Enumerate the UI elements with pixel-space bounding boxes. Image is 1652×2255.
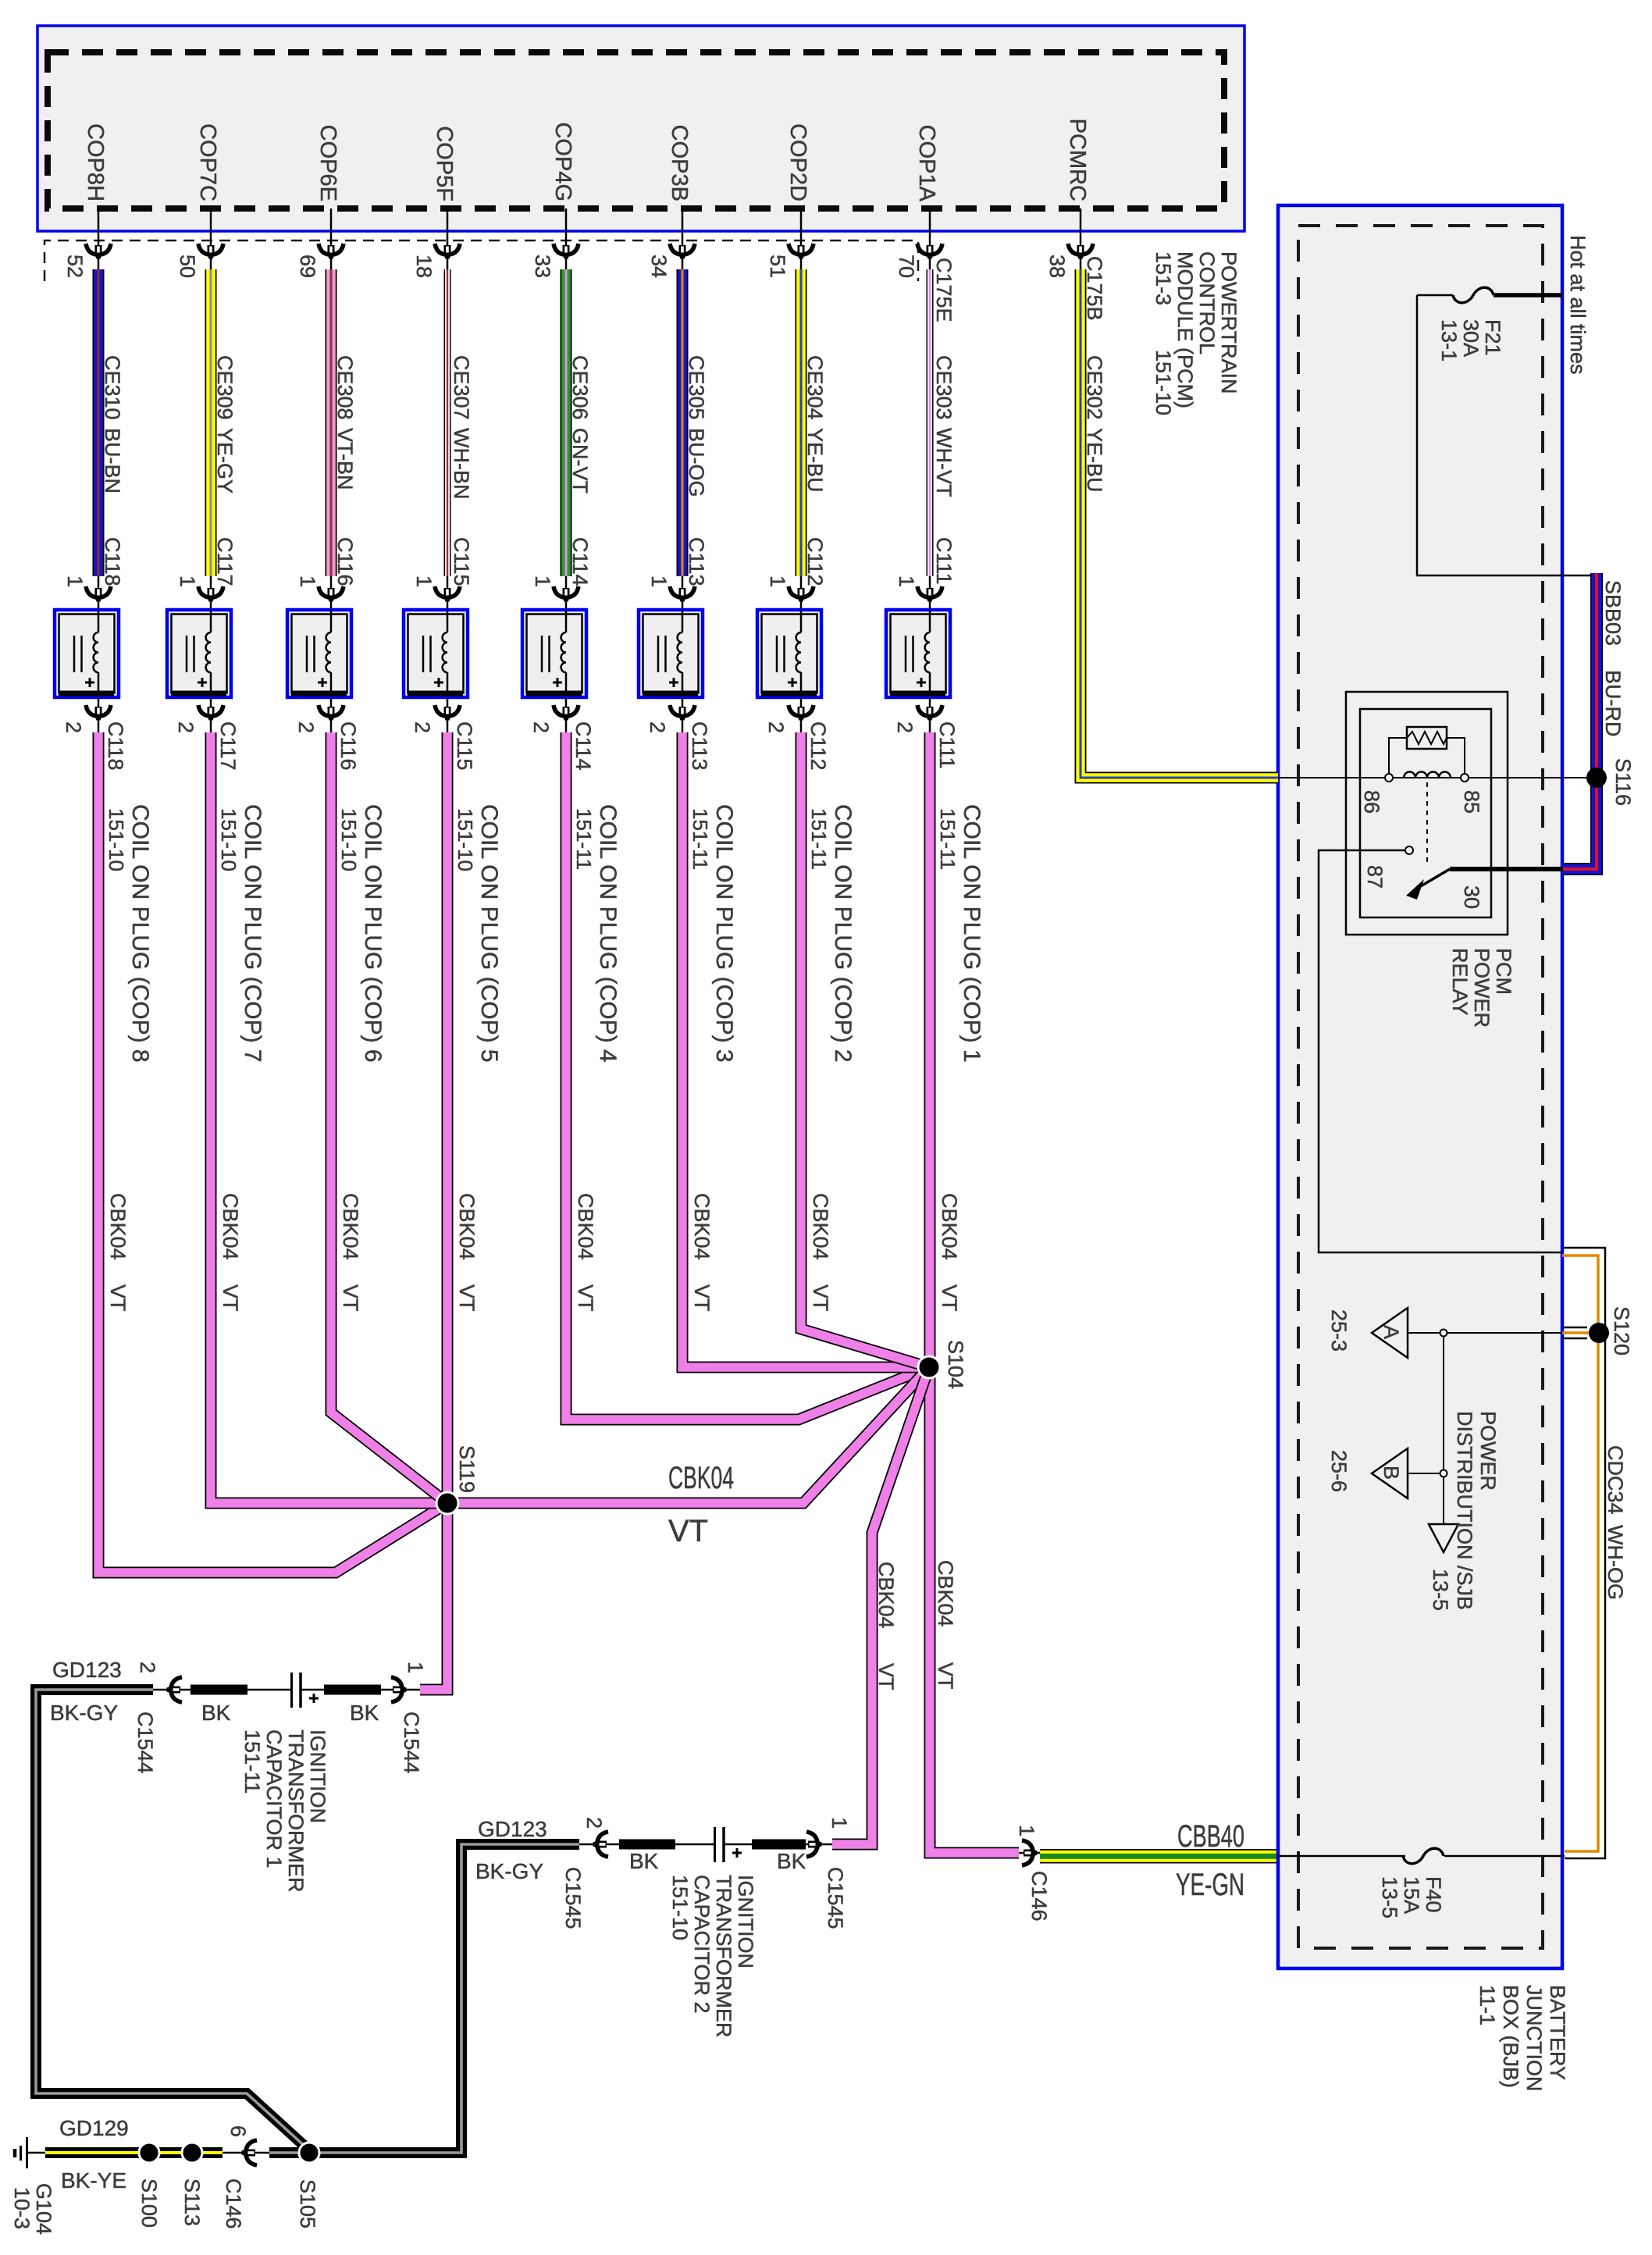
coil on plug (COP) 1 ignition coil <box>886 610 950 697</box>
svg-text:70: 70 <box>895 255 918 278</box>
svg-text:C118: C118 <box>101 537 124 586</box>
battery junction box (BJB) <box>1278 205 1562 1968</box>
svg-text:CBK04: CBK04 <box>809 1193 832 1260</box>
svg-text:POWER: POWER <box>1470 948 1494 1028</box>
label CBB40 YE-GN <box>1176 1819 1244 1902</box>
svg-text:CE302: CE302 <box>1083 355 1106 420</box>
svg-text:CONTROL: CONTROL <box>1195 251 1219 354</box>
label CBK04 VT on COP3 wire <box>690 1193 714 1312</box>
svg-text:COIL ON PLUG (COP) 6: COIL ON PLUG (COP) 6 <box>360 804 386 1063</box>
triangle B (25-6) <box>1327 1448 1408 1498</box>
PCM module label <box>1152 251 1241 415</box>
svg-text:S104: S104 <box>944 1340 967 1389</box>
svg-text:CBK04: CBK04 <box>934 1560 957 1627</box>
wire CBK04 VT from COP5 through S119 to capacitor C1544 <box>420 732 447 1690</box>
svg-text:WH-VT: WH-VT <box>932 428 956 497</box>
wire CDC34 WH-OG from relay pin 87 via S120 to F40 <box>1562 1248 1605 1858</box>
svg-text:51: 51 <box>766 255 789 278</box>
svg-text:1: 1 <box>176 575 199 587</box>
coil pin 2 connector C111 <box>893 697 959 769</box>
svg-text:SBB03: SBB03 <box>1601 580 1625 646</box>
svg-text:151-10: 151-10 <box>1152 350 1175 415</box>
svg-text:TRANSFORMER: TRANSFORMER <box>712 1875 735 2038</box>
svg-text:2: 2 <box>764 721 788 733</box>
label CBK04 VT on COP1 wire <box>938 1193 961 1312</box>
svg-text:1: 1 <box>296 575 319 587</box>
svg-text:COIL ON PLUG (COP) 3: COIL ON PLUG (COP) 3 <box>711 804 737 1063</box>
label GD123 BK-GY (capacitor 1 ground wire) <box>50 1658 122 1725</box>
PCM pin COP3B (pin 34) <box>647 125 695 278</box>
svg-text:COP1A: COP1A <box>914 125 939 202</box>
svg-text:C112: C112 <box>806 721 830 771</box>
svg-text:COIL ON PLUG (COP) 4: COIL ON PLUG (COP) 4 <box>595 804 621 1063</box>
svg-text:33: 33 <box>531 255 554 278</box>
coil on plug (COP) 7 ignition coil <box>167 610 231 697</box>
coil connector C115 pin 1 <box>412 575 460 610</box>
svg-text:1: 1 <box>531 575 554 587</box>
wire GD123 BK-GY from capacitor C1544 to splice S105 <box>36 1690 308 2149</box>
svg-text:C113: C113 <box>688 721 711 771</box>
svg-text:POWERTRAIN: POWERTRAIN <box>1217 251 1241 394</box>
svg-text:C117: C117 <box>213 537 237 586</box>
PCM pin COP7C (pin 50) <box>176 123 223 278</box>
svg-text:86: 86 <box>1360 790 1383 814</box>
svg-text:CBK04: CBK04 <box>574 1193 597 1260</box>
svg-text:C175E: C175E <box>932 258 956 322</box>
svg-text:CBK04: CBK04 <box>455 1193 479 1260</box>
svg-text:S113: S113 <box>180 2178 204 2226</box>
svg-text:25-3: 25-3 <box>1327 1309 1351 1352</box>
svg-text:BK: BK <box>350 1701 379 1725</box>
PCM power relay box <box>1346 692 1508 935</box>
wire CE309 YE-GY <box>205 269 217 576</box>
wire labels CE303 WH-VT C111 <box>932 258 956 585</box>
svg-text:YE-GN: YE-GN <box>1176 1868 1244 1902</box>
svg-text:1: 1 <box>647 575 671 587</box>
svg-text:BATTERY: BATTERY <box>1546 1985 1569 2080</box>
svg-text:COIL ON PLUG (COP) 1: COIL ON PLUG (COP) 1 <box>959 804 984 1063</box>
svg-text:PCMRC: PCMRC <box>1065 119 1090 201</box>
svg-text:151-10: 151-10 <box>668 1875 692 1940</box>
label COIL ON PLUG (COP) 3 <box>689 804 737 1063</box>
label COIL ON PLUG (COP) 5 <box>454 804 502 1063</box>
svg-text:1: 1 <box>63 575 87 587</box>
svg-text:2: 2 <box>646 721 669 733</box>
svg-text:VT: VT <box>690 1284 714 1312</box>
fuse F21 30A <box>1417 287 1562 362</box>
svg-text:CAPACITOR 1: CAPACITOR 1 <box>262 1730 286 1868</box>
svg-text:CE309: CE309 <box>213 355 237 420</box>
wire GD123 BK-GY from capacitor C1545 to splice S105 <box>269 1844 579 2153</box>
label COIL ON PLUG (COP) 7 <box>217 804 265 1063</box>
wire GD129 BK-YE from ground G104 <box>45 2147 223 2158</box>
svg-text:C1545: C1545 <box>824 1867 847 1929</box>
svg-text:C1545: C1545 <box>561 1867 585 1929</box>
coil connector C117 pin 1 <box>176 575 223 610</box>
capacitor C1545 connector pin 1 <box>806 1817 851 1929</box>
wire CBK04 VT from COP3 to splice S104 <box>682 732 929 1367</box>
ground G104 <box>10 2137 55 2235</box>
svg-text:WH-BN: WH-BN <box>450 428 473 499</box>
capacitor C1544 connector pin 1 <box>391 1662 427 1774</box>
svg-text:151-11: 151-11 <box>936 808 960 870</box>
svg-text:COIL ON PLUG (COP) 2: COIL ON PLUG (COP) 2 <box>830 804 856 1063</box>
capacitor C1545 connector pin 2 <box>561 1817 619 1929</box>
relay resistor <box>1389 727 1465 774</box>
PCM pin COP8H (pin 52) <box>63 123 111 278</box>
svg-text:C111: C111 <box>935 721 959 769</box>
coil pin 2 connector C112 <box>764 697 830 771</box>
splice S116 <box>1586 758 1635 806</box>
svg-text:151-11: 151-11 <box>240 1730 264 1794</box>
svg-text:1: 1 <box>404 1662 427 1673</box>
relay coil line (pin 86 to pin 85, to S116) <box>1278 777 1591 778</box>
label BATTERY JUNCTION BOX (BJB) 11-1 <box>1476 1985 1569 2092</box>
svg-text:CE308: CE308 <box>333 355 357 420</box>
svg-text:BK-GY: BK-GY <box>50 1701 118 1725</box>
splice S105 <box>296 2143 319 2228</box>
label COIL ON PLUG (COP) 4 <box>572 804 621 1063</box>
svg-text:69: 69 <box>296 255 319 278</box>
svg-text:DISTRIBUTION /SJB: DISTRIBUTION /SJB <box>1453 1411 1476 1610</box>
wire CE303 WH-VT <box>927 269 934 576</box>
label COIL ON PLUG (COP) 1 <box>936 804 984 1063</box>
svg-text:COP7C: COP7C <box>195 123 220 201</box>
svg-text:WH-OG: WH-OG <box>1604 1525 1627 1600</box>
svg-text:VT: VT <box>106 1284 130 1312</box>
coil pin 2 connector C115 <box>411 697 476 771</box>
svg-text:S116: S116 <box>1611 758 1635 806</box>
coil pin 2 connector C116 <box>294 697 360 771</box>
coil connector C112 pin 1 <box>766 575 814 610</box>
svg-text:CE305: CE305 <box>685 355 708 420</box>
ignition transformer capacitor 1 <box>190 1673 420 1708</box>
svg-text:C1544: C1544 <box>400 1712 423 1774</box>
wire F21 to SBB03 (inside BJB) <box>1417 295 1595 575</box>
label CBK04 VT on COP8 wire <box>106 1193 130 1312</box>
label CBK04 VT on COP7 wire <box>219 1193 242 1312</box>
connector C146 pin 6 (ground side) <box>222 2125 269 2229</box>
relay actuator dashed line <box>1426 782 1428 867</box>
capacitor C1544 connector pin 2 <box>134 1662 190 1774</box>
wire labels CE304 YE-BU C112 <box>803 355 827 586</box>
svg-text:87: 87 <box>1363 865 1387 889</box>
svg-text:C115: C115 <box>453 721 476 771</box>
svg-text:YE-GY: YE-GY <box>213 428 237 493</box>
svg-text:BK: BK <box>201 1701 231 1725</box>
triangle A (25-3) <box>1327 1308 1408 1358</box>
coil connector C118 pin 1 <box>63 575 111 610</box>
coil on plug (COP) 8 ignition coil <box>55 610 119 697</box>
svg-text:CBK04: CBK04 <box>219 1193 242 1260</box>
capacitor 2 labels BK / IGNITION TRANSFORMER CAPACITOR 2 <box>629 1849 806 1873</box>
svg-text:6: 6 <box>226 2125 250 2137</box>
svg-text:2: 2 <box>582 1817 606 1829</box>
splice S119 <box>436 1445 479 1514</box>
svg-text:CE303: CE303 <box>932 355 956 420</box>
svg-text:COP4G: COP4G <box>550 122 575 201</box>
svg-text:2: 2 <box>294 721 318 733</box>
wire CE302 YE-BU from PCMRC to relay coil <box>1045 119 1278 778</box>
svg-text:2: 2 <box>893 721 917 733</box>
wire CBB40 YE-GN to battery junction box <box>1040 1849 1278 1864</box>
coil pin 2 connector C113 <box>646 697 711 771</box>
wire labels CE305 BU-OG C113 <box>685 355 708 586</box>
coil on plug (COP) 5 ignition coil <box>404 610 468 697</box>
svg-text:C1544: C1544 <box>134 1712 157 1774</box>
coil pin 2 connector C118 <box>62 697 127 771</box>
wire CE304 YE-BU <box>796 269 807 576</box>
svg-text:COIL ON PLUG (COP) 7: COIL ON PLUG (COP) 7 <box>240 804 265 1063</box>
svg-text:C112: C112 <box>803 537 827 586</box>
label CBK04 VT on COP2 wire <box>809 1193 832 1312</box>
ignition transformer capacitor 2 <box>619 1827 832 1862</box>
svg-text:50: 50 <box>176 255 199 278</box>
svg-text:TRANSFORMER: TRANSFORMER <box>284 1730 308 1893</box>
svg-text:CBK04: CBK04 <box>874 1562 898 1629</box>
svg-text:1: 1 <box>766 575 789 587</box>
svg-text:151-10: 151-10 <box>217 808 240 871</box>
svg-text:C116: C116 <box>333 537 357 586</box>
svg-text:85: 85 <box>1460 790 1483 814</box>
svg-text:VT: VT <box>934 1662 957 1690</box>
svg-text:34: 34 <box>647 255 671 278</box>
svg-text:BK: BK <box>777 1849 806 1873</box>
svg-text:C118: C118 <box>104 721 127 771</box>
label COIL ON PLUG (COP) 2 <box>807 804 856 1063</box>
svg-text:CE310: CE310 <box>101 355 124 420</box>
svg-text:13-1: 13-1 <box>1437 319 1461 362</box>
svg-text:CE307: CE307 <box>450 355 473 420</box>
svg-text:CBK04: CBK04 <box>339 1193 362 1260</box>
label COIL ON PLUG (COP) 8 <box>105 804 153 1063</box>
svg-text:13-5: 13-5 <box>1429 1569 1452 1611</box>
svg-text:C113: C113 <box>685 537 708 586</box>
svg-text:25-6: 25-6 <box>1327 1450 1351 1492</box>
svg-text:11-1: 11-1 <box>1476 1985 1499 2025</box>
capacitor 1 labels BK / IGNITION TRANSFORMER CAPACITOR 1 <box>201 1701 379 1725</box>
svg-text:VT: VT <box>574 1284 597 1312</box>
svg-text:MODULE (PCM): MODULE (PCM) <box>1173 251 1197 408</box>
coil on plug (COP) 6 ignition coil <box>287 610 351 697</box>
svg-text:F21: F21 <box>1481 319 1504 356</box>
svg-text:1: 1 <box>1015 1825 1038 1836</box>
PCM pin COP1A (pin 70) <box>895 125 942 278</box>
svg-text:CAPACITOR 2: CAPACITOR 2 <box>690 1875 714 2014</box>
svg-text:C114: C114 <box>568 537 592 586</box>
svg-text:BK-GY: BK-GY <box>475 1859 543 1883</box>
svg-text:YE-BU: YE-BU <box>803 428 827 493</box>
wire CBK04 VT from COP7 to splice S119 <box>211 732 447 1503</box>
wire CE306 GN-VT <box>561 269 572 576</box>
svg-text:F40: F40 <box>1422 1876 1445 1913</box>
label GD129 BK-YE <box>59 2116 129 2193</box>
svg-text:151-10: 151-10 <box>105 808 128 871</box>
coil pin 2 connector C114 <box>529 697 595 771</box>
svg-text:BU-BN: BU-BN <box>101 428 124 493</box>
svg-text:1: 1 <box>895 575 918 587</box>
svg-text:VT: VT <box>339 1284 362 1312</box>
svg-text:VT: VT <box>809 1284 832 1312</box>
svg-text:COP3B: COP3B <box>667 125 692 201</box>
svg-text:151-10: 151-10 <box>454 808 477 871</box>
svg-text:C117: C117 <box>216 721 240 771</box>
svg-text:BU-RD: BU-RD <box>1601 670 1625 737</box>
svg-text:IGNITION: IGNITION <box>306 1730 329 1823</box>
wire CE307 WH-BN <box>444 269 451 576</box>
svg-text:VT-BN: VT-BN <box>333 428 357 490</box>
svg-text:VT: VT <box>874 1663 898 1690</box>
svg-text:C111: C111 <box>932 537 956 585</box>
power distribution lines to triangles A and B <box>1408 1330 1562 1525</box>
svg-text:C116: C116 <box>336 721 360 771</box>
wire CE305 BU-OG <box>677 269 689 576</box>
svg-text:GD129: GD129 <box>59 2116 129 2140</box>
coil connector C113 pin 1 <box>647 575 695 610</box>
wire CBK04 VT from COP8 to splice S119 <box>98 732 447 1573</box>
wire CBK04 VT link splice S119 to splice S104 <box>447 1367 929 1503</box>
svg-text:BK-YE: BK-YE <box>61 2168 126 2193</box>
wire CBK04 VT from COP6 to splice S119 <box>331 732 447 1503</box>
svg-text:30A: 30A <box>1459 319 1483 357</box>
svg-text:BOX (BJB): BOX (BJB) <box>1499 1985 1522 2088</box>
svg-text:C146: C146 <box>1027 1871 1051 1922</box>
label SBB03 BU-RD <box>1601 580 1625 737</box>
label COIL ON PLUG (COP) 6 <box>337 804 386 1063</box>
wire CBK04 VT from COP4 to splice S104 <box>566 732 929 1420</box>
svg-text:CBK04: CBK04 <box>668 1461 734 1495</box>
svg-text:S120: S120 <box>1610 1306 1633 1355</box>
wire labels CE309 YE-GY C117 <box>213 355 237 586</box>
svg-text:C146: C146 <box>222 2178 245 2229</box>
svg-text:VT: VT <box>668 1514 708 1548</box>
svg-text:18: 18 <box>412 255 436 278</box>
svg-text:VT: VT <box>938 1284 961 1312</box>
svg-text:13-5: 13-5 <box>1378 1876 1401 1918</box>
svg-text:COP2D: COP2D <box>785 123 810 201</box>
svg-text:2: 2 <box>529 721 553 733</box>
svg-text:CBK04: CBK04 <box>106 1193 130 1260</box>
svg-text:15A: 15A <box>1400 1876 1423 1914</box>
svg-text:S105: S105 <box>296 2179 319 2228</box>
svg-text:COP6E: COP6E <box>315 125 340 201</box>
PCM pin COP2D (pin 51) <box>766 123 814 278</box>
connector C175E dashed boundary line <box>45 240 918 281</box>
svg-text:1: 1 <box>828 1817 851 1829</box>
splice S120 <box>1562 1306 1633 1355</box>
svg-text:BK: BK <box>629 1849 659 1873</box>
svg-text:CBK04: CBK04 <box>938 1193 961 1260</box>
svg-text:52: 52 <box>63 255 87 278</box>
svg-text:COIL ON PLUG (COP) 5: COIL ON PLUG (COP) 5 <box>476 804 502 1063</box>
svg-text:VT: VT <box>455 1284 479 1312</box>
labels CBK04 VT on lower wires <box>874 1560 957 1690</box>
label Hot at all times <box>1566 235 1590 375</box>
svg-text:30: 30 <box>1460 885 1483 909</box>
svg-text:GD123: GD123 <box>52 1658 122 1682</box>
svg-text:PCM: PCM <box>1492 948 1515 995</box>
svg-text:YE-BU: YE-BU <box>1083 428 1106 493</box>
PCM pin COP4G (pin 33) <box>531 122 579 278</box>
relay pin labels 86 85 87 30 <box>1360 790 1483 909</box>
wire CE310 BU-BN <box>93 269 105 576</box>
svg-text:RELAY: RELAY <box>1448 948 1472 1016</box>
label GD123 BK-GY (capacitor 2 ground wire) <box>475 1817 547 1883</box>
wire labels CE307 WH-BN C115 <box>450 355 473 586</box>
wire relay pin 87 to S120 (inside BJB) <box>1319 850 1562 1252</box>
svg-text:CE306: CE306 <box>568 355 592 420</box>
wire CE308 VT-BN <box>326 269 337 576</box>
svg-text:POWER: POWER <box>1476 1411 1500 1491</box>
svg-text:1: 1 <box>412 575 436 587</box>
svg-text:2: 2 <box>136 1662 159 1673</box>
svg-text:B: B <box>1380 1466 1403 1480</box>
coil connector C111 pin 1 <box>895 575 942 610</box>
PCM pin COP5F (pin 18) <box>412 126 460 278</box>
label POWER DISTRIBUTION /SJB <box>1453 1411 1500 1610</box>
svg-text:151-11: 151-11 <box>807 808 831 870</box>
svg-text:10-3: 10-3 <box>10 2187 34 2229</box>
splice S100 <box>137 2143 161 2228</box>
svg-text:A: A <box>1380 1325 1403 1339</box>
svg-text:CBB40: CBB40 <box>1177 1819 1244 1854</box>
splice S104 <box>918 1340 967 1389</box>
svg-text:GD123: GD123 <box>478 1817 547 1841</box>
wire labels CE310 BU-BN C118 <box>101 355 124 586</box>
label CBK04 VT on COP6 wire <box>339 1193 362 1312</box>
connector C146 pin 1 (to BJB) <box>1015 1825 1051 1922</box>
wire CBK04 VT from S104 to capacitor C1545 <box>832 1367 929 1844</box>
wire relay pin 30 to SBB03 <box>1450 867 1563 871</box>
svg-text:151-10: 151-10 <box>337 808 361 871</box>
label CBK04 VT on S119-S104 link <box>668 1461 734 1548</box>
wire CBK04 VT from COP1 through S104 to connector C146 <box>930 732 1019 1853</box>
svg-text:C114: C114 <box>571 721 595 771</box>
svg-text:GN-VT: GN-VT <box>568 428 592 493</box>
svg-text:CE304: CE304 <box>803 355 827 420</box>
PCM module box (POWERTRAIN CONTROL MODULE) <box>37 26 1244 231</box>
coil on plug (COP) 4 ignition coil <box>522 610 586 697</box>
label PCM POWER RELAY <box>1448 948 1515 1028</box>
svg-text:151-11: 151-11 <box>572 808 596 870</box>
wire SBB03 BU-RD from F21 to relay pin 30 <box>1562 573 1597 869</box>
wire CBK04 VT from COP2 to splice S104 <box>801 732 929 1367</box>
svg-text:2: 2 <box>411 721 434 733</box>
svg-text:G104: G104 <box>32 2183 55 2235</box>
PCM pin COP6E (pin 69) <box>296 125 344 278</box>
svg-text:COP5F: COP5F <box>432 126 457 201</box>
svg-text:S119: S119 <box>455 1445 479 1493</box>
svg-text:C175B: C175B <box>1083 256 1106 321</box>
svg-text:151-3: 151-3 <box>1152 251 1175 305</box>
svg-text:IGNITION: IGNITION <box>734 1875 757 1968</box>
wire labels CE308 VT-BN C116 <box>333 355 357 586</box>
coil on plug (COP) 2 ignition coil <box>757 610 821 697</box>
svg-text:JUNCTION: JUNCTION <box>1522 1985 1546 2092</box>
output triangle to 13-5 <box>1429 1524 1458 1611</box>
svg-text:C115: C115 <box>450 537 473 586</box>
coil on plug (COP) 3 ignition coil <box>639 610 703 697</box>
svg-text:VT: VT <box>219 1284 242 1312</box>
label CBK04 VT on COP4 wire <box>574 1193 597 1312</box>
relay switch blade (pin 30) <box>1406 869 1450 900</box>
svg-text:COP8H: COP8H <box>83 123 108 201</box>
label CDC34 WH-OG <box>1604 1445 1627 1600</box>
svg-text:38: 38 <box>1045 255 1069 278</box>
svg-text:S100: S100 <box>137 2178 161 2228</box>
svg-text:2: 2 <box>174 721 198 733</box>
wire labels CE306 GN-VT C114 <box>568 355 592 586</box>
